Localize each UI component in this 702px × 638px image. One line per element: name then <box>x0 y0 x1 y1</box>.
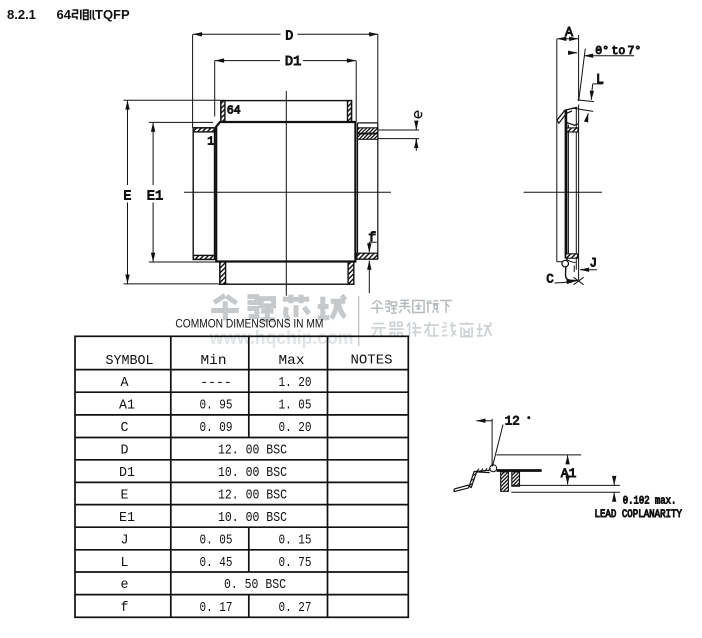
J dimension <box>574 256 597 272</box>
svg-text:C: C <box>546 272 554 287</box>
hatched block 1 <box>501 472 509 491</box>
svg-text:A: A <box>565 25 574 41</box>
E1 extension lines <box>149 121 213 123</box>
svg-text:0. 75: 0. 75 <box>279 555 312 571</box>
lead angle slant line <box>579 49 586 101</box>
CJK glyph jiao (drawn) <box>84 10 96 20</box>
A extension line left (lead tip plane) <box>556 39 558 262</box>
right lead band <box>357 123 378 259</box>
body edge thick line <box>497 469 542 472</box>
bend radius circle <box>490 465 497 472</box>
center line vertical <box>285 91 287 296</box>
svg-text:12. 00 BSC: 12. 00 BSC <box>218 443 287 459</box>
bend radius circle <box>562 260 569 267</box>
D1 dimension line <box>215 54 356 70</box>
svg-text:J: J <box>590 256 598 271</box>
A dimension <box>557 25 578 41</box>
svg-text:f: f <box>121 600 129 616</box>
svg-text:0. 05: 0. 05 <box>200 532 233 548</box>
pin pitch detail: two hatched pins <box>358 128 378 139</box>
top lead band <box>221 101 352 122</box>
big watermark char cheng <box>318 295 346 318</box>
svg-text:A1: A1 <box>119 397 135 413</box>
angle arrow left of slant <box>568 52 577 54</box>
body top taper <box>567 122 579 125</box>
svg-text:7°: 7° <box>628 45 642 58</box>
svg-text:L: L <box>121 555 129 571</box>
bottom lead band <box>220 262 354 285</box>
e pitch dimension <box>379 111 422 151</box>
svg-text:----: ---- <box>200 375 232 391</box>
watermark divider line <box>358 296 360 346</box>
svg-text:0.102 max.: 0.102 max. <box>623 496 677 508</box>
svg-text:NOTES: NOTES <box>351 353 393 369</box>
svg-text:A1: A1 <box>561 466 577 481</box>
svg-text:64: 64 <box>57 7 72 22</box>
svg-text:0. 17: 0. 17 <box>200 600 233 616</box>
0.102 max dimension arrows <box>613 477 615 501</box>
svg-text:10. 00 BSC: 10. 00 BSC <box>218 510 287 526</box>
seating-plane cross at foot tip <box>574 277 584 284</box>
svg-text:E1: E1 <box>147 188 163 204</box>
body cross-section <box>557 105 579 281</box>
E1 dimension line <box>147 123 163 262</box>
angle tick with arrow <box>476 420 492 422</box>
svg-text:0. 15: 0. 15 <box>279 532 312 548</box>
svg-text:D1: D1 <box>119 465 135 481</box>
0 to 7 deg leader line <box>584 55 634 57</box>
A1 dimension <box>561 455 577 484</box>
svg-text:12. 00 BSC: 12. 00 BSC <box>218 487 287 503</box>
section title 8.2.1 64-pin TQFP <box>7 7 130 22</box>
hatched block 2 <box>512 472 520 486</box>
svg-text:1. 20: 1. 20 <box>279 375 312 391</box>
top reference line (A1 datum) <box>496 454 581 456</box>
A extension line right (package top plane) <box>578 35 580 101</box>
svg-text:e: e <box>121 577 129 593</box>
svg-text:0. 20: 0. 20 <box>279 420 312 436</box>
svg-text:f: f <box>368 231 376 245</box>
bottom taper line <box>566 259 575 263</box>
svg-text:C: C <box>121 420 129 436</box>
svg-text:1: 1 <box>207 135 214 149</box>
svg-text:A: A <box>121 375 130 391</box>
left lead band <box>193 128 214 260</box>
svg-text:to: to <box>612 45 626 58</box>
inner lines <box>566 123 568 262</box>
D1 extension lines <box>214 61 216 117</box>
svg-text:0. 95: 0. 95 <box>200 397 233 413</box>
center line <box>524 191 602 193</box>
bottom hatch band <box>566 254 578 258</box>
package body outline <box>216 122 355 262</box>
f corner dimension <box>368 231 376 293</box>
D extension lines <box>192 34 194 128</box>
svg-text:0. 09: 0. 09 <box>200 420 233 436</box>
table vertical rules <box>171 336 328 617</box>
svg-text:E: E <box>123 188 131 204</box>
svg-text:COMMON DIMENSIONS IN MM: COMMON DIMENSIONS IN MM <box>175 319 323 331</box>
slant line 12 deg <box>493 425 503 466</box>
svg-text:10. 00 BSC: 10. 00 BSC <box>218 465 287 481</box>
svg-text:1. 05: 1. 05 <box>279 397 312 413</box>
big watermark char xin <box>283 295 309 320</box>
svg-text:D: D <box>285 28 293 44</box>
top lead (bent toward tip plane) <box>557 107 577 120</box>
svg-text:J: J <box>121 532 129 548</box>
C dimension <box>546 272 583 287</box>
medium watermark row: hua qiang ji tuan qi xia <box>371 300 452 313</box>
gull-wing lead profile <box>454 470 490 492</box>
svg-text:E: E <box>121 487 129 503</box>
svg-text:LEAD COPLANARITY: LEAD COPLANARITY <box>595 509 683 521</box>
left thick edge (lead row edge-on) <box>565 110 568 258</box>
CJK glyph yin (drawn) <box>73 10 81 20</box>
seating plane line <box>511 491 620 493</box>
svg-text:64: 64 <box>227 103 241 117</box>
E dimension line <box>123 101 131 284</box>
svg-text:L: L <box>596 72 604 88</box>
svg-text:0. 27: 0. 27 <box>279 600 312 616</box>
center line horizontal <box>184 191 391 193</box>
svg-text:SYMBOL: SYMBOL <box>106 353 154 369</box>
svg-text:TQFP: TQFP <box>95 7 130 22</box>
svg-text:8.2.1: 8.2.1 <box>7 7 36 22</box>
table horizontal rules <box>75 370 408 595</box>
svg-text:0°: 0° <box>595 45 609 58</box>
svg-text:Min: Min <box>201 353 227 369</box>
top hatch band <box>567 128 578 132</box>
svg-text:D1: D1 <box>285 54 301 70</box>
coplanarity upper line <box>512 484 620 486</box>
big watermark char hua <box>211 295 239 320</box>
svg-text:0. 50 BSC: 0. 50 BSC <box>224 577 286 593</box>
svg-text:D: D <box>121 443 129 459</box>
lead top hatch ticks <box>470 468 491 485</box>
right band bottom corner pin hatch <box>357 253 378 259</box>
E extension lines <box>124 99 221 101</box>
L dimension <box>572 72 604 119</box>
svg-text:12: 12 <box>505 413 520 428</box>
vertical reference line <box>491 419 493 467</box>
lead foot <box>566 267 578 281</box>
big watermark char qiang <box>247 297 275 320</box>
small watermark row: yuan qi2 jian zai xian shang cheng <box>371 322 491 337</box>
svg-text:0. 45: 0. 45 <box>200 555 233 571</box>
tie line from extension to circle <box>557 261 562 263</box>
table outer border <box>75 336 408 617</box>
D dimension line <box>193 28 378 44</box>
svg-text:Max: Max <box>279 353 305 369</box>
svg-text:E1: E1 <box>119 510 135 526</box>
min/max divider segments <box>248 336 250 617</box>
